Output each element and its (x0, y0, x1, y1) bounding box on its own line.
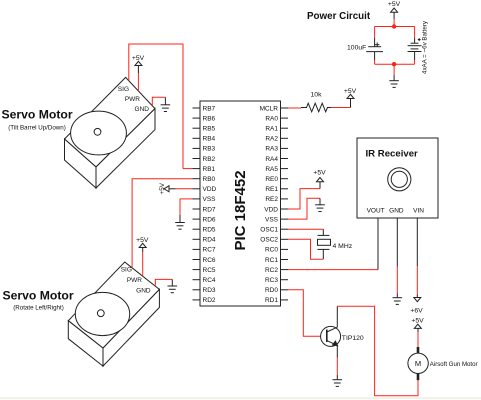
svg-text:10k: 10k (311, 92, 323, 99)
svg-text:PIC 18F452: PIC 18F452 (232, 170, 249, 250)
svg-text:RC7: RC7 (203, 247, 216, 254)
svg-text:VSS: VSS (265, 216, 279, 223)
svg-text:+5V: +5V (159, 182, 166, 194)
svg-text:OSC2: OSC2 (260, 237, 278, 244)
svg-text:RD6: RD6 (203, 216, 216, 223)
svg-text:Servo Motor: Servo Motor (2, 107, 73, 121)
svg-text:VDD: VDD (264, 206, 278, 213)
svg-text:+5V: +5V (313, 170, 326, 177)
svg-text:TIP120: TIP120 (342, 335, 364, 342)
svg-text:Airsoft Gun Motor: Airsoft Gun Motor (430, 361, 478, 368)
svg-text:+5V: +5V (136, 237, 149, 244)
svg-text:PWR: PWR (127, 277, 142, 284)
svg-text:RE2: RE2 (265, 196, 278, 203)
svg-text:OSC1: OSC1 (260, 227, 278, 234)
svg-text:VIN: VIN (413, 207, 424, 214)
svg-text:+5V: +5V (411, 318, 424, 325)
svg-text:100uF: 100uF (347, 45, 366, 52)
svg-text:RD1: RD1 (265, 297, 278, 304)
svg-text:RC3: RC3 (265, 277, 278, 284)
svg-text:RD5: RD5 (203, 227, 216, 234)
svg-text:+5V: +5V (132, 55, 145, 62)
svg-text:MCLR: MCLR (260, 105, 279, 112)
svg-text:GND: GND (389, 207, 404, 214)
svg-text:RD2: RD2 (203, 297, 216, 304)
svg-text:RB6: RB6 (203, 115, 216, 122)
svg-text:RA5: RA5 (265, 166, 278, 173)
svg-text:RB2: RB2 (203, 156, 216, 163)
svg-text:RD7: RD7 (203, 206, 216, 213)
svg-text:RB0: RB0 (203, 176, 216, 183)
svg-text:RD0: RD0 (265, 287, 278, 294)
svg-text:GND: GND (135, 106, 150, 113)
svg-text:Power Circuit: Power Circuit (307, 11, 371, 22)
svg-text:RC6: RC6 (203, 257, 216, 264)
svg-text:RC0: RC0 (265, 247, 278, 254)
svg-text:RB5: RB5 (203, 126, 216, 133)
svg-text:RB7: RB7 (203, 105, 216, 112)
svg-text:RE0: RE0 (265, 176, 278, 183)
svg-text:RB3: RB3 (203, 146, 216, 153)
svg-text:RA4: RA4 (265, 156, 278, 163)
svg-text:RC4: RC4 (203, 277, 216, 284)
svg-text:VSS: VSS (203, 196, 217, 203)
svg-text:M: M (415, 359, 421, 368)
svg-text:Servo Motor: Servo Motor (3, 289, 74, 303)
svg-text:(Tilt Barrel Up/Down): (Tilt Barrel Up/Down) (8, 125, 66, 132)
svg-text:RB4: RB4 (203, 136, 216, 143)
svg-text:4 MHz: 4 MHz (333, 243, 353, 250)
svg-text:RB1: RB1 (203, 166, 216, 173)
svg-text:RC5: RC5 (203, 267, 216, 274)
svg-text:+6V: +6V (410, 308, 423, 315)
svg-text:SIG: SIG (118, 86, 129, 93)
svg-text:VOUT: VOUT (367, 207, 385, 214)
svg-text:(Rotate Left/Right): (Rotate Left/Right) (13, 305, 64, 312)
svg-text:IR Receiver: IR Receiver (366, 148, 419, 159)
svg-text:VDD: VDD (203, 186, 217, 193)
svg-text:RA0: RA0 (265, 115, 278, 122)
svg-text:RD4: RD4 (203, 237, 216, 244)
svg-text:RE1: RE1 (265, 186, 278, 193)
svg-text:RC1: RC1 (265, 257, 278, 264)
svg-text:RC2: RC2 (265, 267, 278, 274)
svg-text:GND: GND (136, 288, 151, 295)
svg-text:RA3: RA3 (265, 146, 278, 153)
svg-text:SIG: SIG (121, 267, 132, 274)
svg-text:+5V: +5V (344, 88, 357, 95)
svg-text:PWR: PWR (125, 96, 140, 103)
svg-text:RA1: RA1 (265, 126, 278, 133)
svg-text:RD3: RD3 (203, 287, 216, 294)
svg-text:4xAA = ~6v Battery: 4xAA = ~6v Battery (422, 20, 429, 74)
svg-text:RA2: RA2 (265, 136, 278, 143)
svg-text:+5V: +5V (388, 1, 401, 8)
